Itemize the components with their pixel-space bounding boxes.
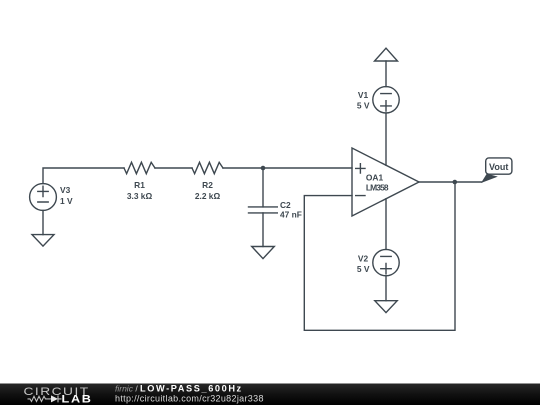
wire C2 top bbox=[262, 168, 264, 207]
wire V3 top to R1 bbox=[43, 168, 124, 184]
svg-text:V2: V2 bbox=[358, 254, 369, 264]
resistor R1 bbox=[124, 162, 155, 173]
VCC arrow above V1 bbox=[375, 48, 398, 61]
node junction at C2 tap bbox=[261, 166, 266, 171]
ground under C2 bbox=[252, 247, 275, 259]
capacitor C2 bbox=[249, 207, 278, 213]
voltage source V1 bbox=[373, 87, 399, 113]
svg-text:LAB: LAB bbox=[62, 392, 93, 405]
voltage source V2 bbox=[373, 249, 399, 275]
svg-text:2.2 kΩ: 2.2 kΩ bbox=[195, 191, 221, 201]
svg-text:OA1: OA1 bbox=[366, 173, 384, 183]
wire R1 to R2 bbox=[155, 167, 192, 169]
output flag Vout tail bbox=[481, 174, 498, 183]
svg-text:3.3 kΩ: 3.3 kΩ bbox=[127, 191, 153, 201]
wire op-amp output bbox=[419, 181, 482, 183]
wire V3 bottom bbox=[42, 210, 44, 234]
wire R2 to op-amp non-inverting input bbox=[223, 167, 352, 169]
svg-text:V1: V1 bbox=[358, 90, 369, 100]
ground under V3 bbox=[32, 235, 54, 247]
svg-text:5 V: 5 V bbox=[357, 264, 370, 274]
logo resistor squiggle bbox=[28, 396, 52, 401]
voltage source V3 bbox=[30, 184, 57, 211]
svg-text:http://circuitlab.com/cr32u82j: http://circuitlab.com/cr32u82jar338 bbox=[115, 394, 264, 404]
svg-text:47 nF: 47 nF bbox=[280, 210, 302, 220]
logo diode bbox=[51, 395, 58, 402]
svg-text:1 V: 1 V bbox=[60, 196, 73, 206]
wire C2 bottom bbox=[262, 213, 264, 247]
node junction at output bbox=[453, 180, 458, 185]
op-amp OA1 bbox=[352, 148, 419, 216]
svg-text:C2: C2 bbox=[280, 200, 291, 210]
svg-text:5 V: 5 V bbox=[357, 101, 370, 111]
svg-text:R2: R2 bbox=[202, 180, 213, 190]
wire V2 bottom bbox=[385, 276, 387, 301]
output flag Vout box bbox=[486, 158, 512, 174]
wire op-amp V- pin to V2 bbox=[385, 199, 387, 250]
svg-text:firnic / LOW-PASS_600Hz: firnic / LOW-PASS_600Hz bbox=[115, 383, 243, 393]
wire V1 to op-amp V+ pin bbox=[385, 113, 387, 165]
wire inverting input to feedback bbox=[304, 182, 455, 330]
wire VCC to V1 bbox=[385, 61, 387, 87]
svg-text:V3: V3 bbox=[60, 185, 71, 195]
resistor R2 bbox=[192, 162, 223, 173]
ground under V2 bbox=[375, 301, 397, 313]
svg-text:R1: R1 bbox=[134, 180, 145, 190]
svg-text:LM358: LM358 bbox=[366, 182, 389, 192]
svg-text:Vout: Vout bbox=[489, 162, 508, 172]
